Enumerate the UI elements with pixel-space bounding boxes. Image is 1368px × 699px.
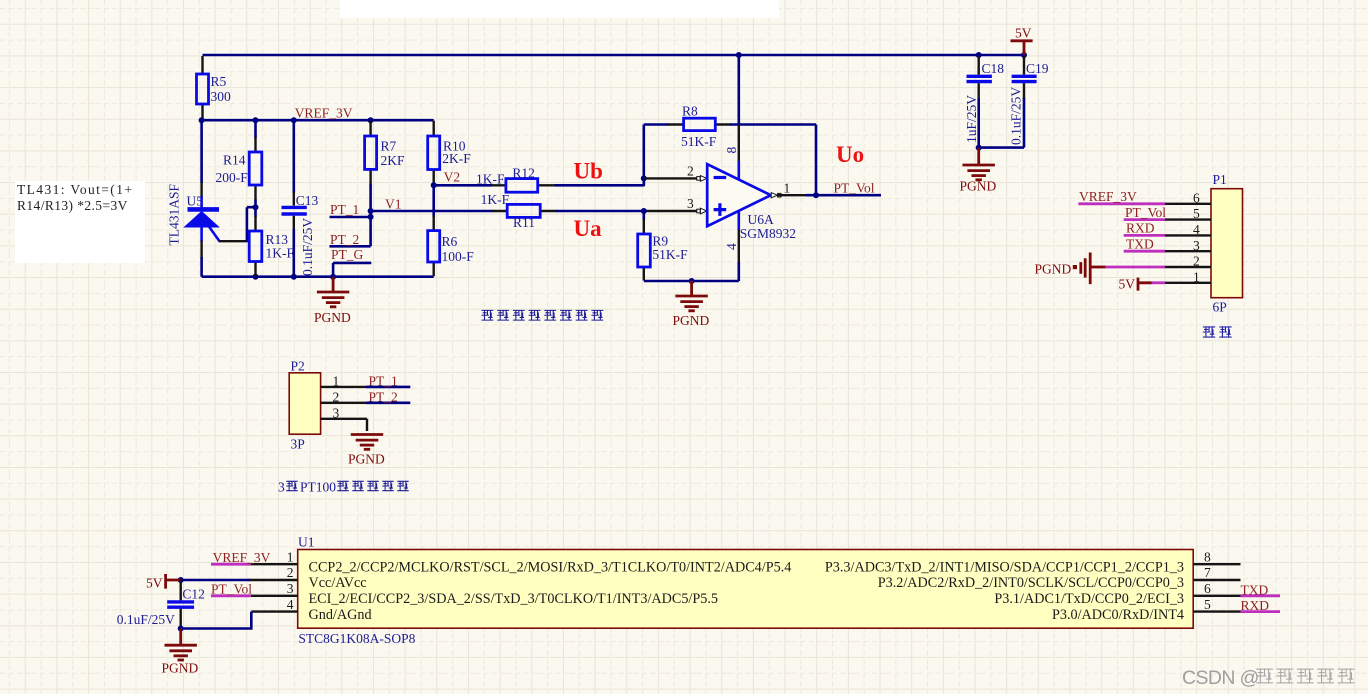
wire top 5V rail (203, 54, 1025, 57)
svg-text:4: 4 (724, 243, 739, 250)
svg-text:PT_Vol: PT_Vol (1125, 205, 1166, 220)
svg-text:51K-F: 51K-F (652, 247, 688, 262)
svg-text:VREF_3V: VREF_3V (1079, 189, 1137, 204)
svg-text:VREF_3V: VREF_3V (213, 550, 271, 565)
svg-text:TL431ASF: TL431ASF (167, 184, 182, 246)
junction VREF at R7 (368, 117, 374, 123)
pin 2 wire (644, 177, 700, 179)
power 5V top right (1011, 26, 1033, 55)
svg-text:PT_Vol: PT_Vol (211, 581, 252, 596)
svg-text:200-F: 200-F (216, 170, 249, 185)
svg-text:PGND: PGND (673, 313, 710, 328)
ground PGND under op-amp (673, 281, 710, 328)
svg-text:TXD: TXD (1241, 582, 1269, 597)
wire output PT_Vol (806, 194, 881, 197)
svg-text:8: 8 (724, 147, 739, 154)
wire VREF_3V to U1 pin1 (211, 563, 251, 566)
wire C18-C19 bottom (979, 146, 1024, 149)
svg-text:P3.3/ADC3/TxD_2/INT1/MISO/SDA/: P3.3/ADC3/TxD_2/INT1/MISO/SDA/CCP1/CCP1_… (825, 559, 1184, 575)
pin 3 of P1 (1165, 250, 1211, 252)
junction on top rail at C19 / 5V (1021, 52, 1027, 58)
svg-text:C19: C19 (1026, 61, 1049, 76)
svg-text:Vcc/AVcc: Vcc/AVcc (309, 575, 367, 591)
wire bottom rail (202, 275, 434, 278)
connector P1 (1211, 172, 1243, 315)
wire Ua net: R11 to op-amp (556, 210, 644, 213)
svg-text:P2: P2 (291, 359, 305, 374)
pin 4 (737, 211, 740, 231)
svg-text:0.1uF/25V: 0.1uF/25V (300, 218, 315, 276)
svg-text:R5: R5 (211, 74, 227, 89)
junction on top rail at op-amp supply column (736, 52, 742, 58)
ground PGND under C12 (162, 629, 199, 676)
svg-text:2: 2 (287, 565, 294, 580)
svg-text:CSDN @: CSDN @ (1182, 667, 1259, 689)
junction V2 (431, 182, 437, 188)
annotation white box (15, 181, 145, 263)
pin 4 of U1 (251, 610, 297, 612)
ground PGND sideways at P1 pin 2 (1035, 253, 1106, 285)
svg-text:3: 3 (333, 405, 340, 420)
pin 3 wire (644, 210, 700, 212)
svg-text:3: 3 (278, 480, 285, 495)
svg-text:PGND: PGND (348, 452, 385, 467)
pin 3 of U1 (251, 595, 298, 597)
svg-text:PT_2: PT_2 (369, 389, 398, 404)
wire 5V to U1 pin2 (181, 579, 250, 582)
svg-text:RXD: RXD (1126, 221, 1155, 236)
pin 4 of P1 (1165, 234, 1211, 236)
wire Ub net: V2 to R12 (434, 184, 492, 187)
svg-text:300: 300 (211, 89, 232, 104)
pin 6 of U1 (1193, 595, 1240, 597)
pin 5 of P1 (1165, 218, 1211, 220)
svg-text:1K-F: 1K-F (476, 172, 505, 187)
svg-text:C12: C12 (182, 587, 205, 602)
svg-text:V1: V1 (385, 197, 402, 212)
junction C12 bottom (178, 626, 184, 632)
text stage caption (482, 310, 604, 320)
junction bottom rail at R13 (253, 274, 259, 280)
svg-text:R14: R14 (223, 153, 246, 168)
svg-text:R11: R11 (513, 215, 535, 230)
wire VREF_3V to pin 6 (1078, 202, 1165, 205)
svg-text:3: 3 (687, 196, 694, 211)
junction VREF at R5/U5 (199, 117, 205, 123)
svg-text:U6A: U6A (748, 212, 774, 227)
resistor R11 (481, 192, 557, 230)
svg-text:C18: C18 (982, 61, 1005, 76)
resistor R6 (428, 215, 475, 276)
svg-text:8: 8 (1204, 549, 1211, 564)
resistor R12 (476, 165, 556, 192)
resistor R13 (249, 207, 294, 276)
svg-text:STC8G1K08A-SOP8: STC8G1K08A-SOP8 (298, 631, 415, 646)
capacitor C13 (282, 120, 319, 277)
svg-text:51K-F: 51K-F (681, 134, 717, 149)
svg-text:5: 5 (1204, 597, 1211, 612)
pin 2 of P2 (321, 402, 367, 404)
svg-text:2: 2 (687, 164, 694, 179)
text pin header caption (1203, 327, 1232, 337)
svg-text:5V: 5V (146, 576, 163, 591)
pin 3 of P2 (321, 419, 367, 431)
junction bottom rail at PT_G (330, 274, 336, 280)
pin 2 of P1 (1165, 266, 1211, 268)
junction inverting input (641, 175, 647, 181)
svg-text:V2: V2 (444, 169, 461, 184)
pin 1 output (771, 193, 777, 198)
wire R8 feedback right to output (730, 125, 816, 196)
capacitor C12 (117, 580, 205, 629)
svg-text:2KF: 2KF (381, 153, 405, 168)
svg-text:0.1uF/25V: 0.1uF/25V (1009, 87, 1024, 145)
svg-text:3: 3 (287, 581, 294, 596)
wire V2 to R6 (432, 185, 435, 217)
power 5V at P1 pin 1 (1119, 276, 1153, 291)
wire PT_1 stub (330, 216, 371, 219)
svg-text:2: 2 (1193, 254, 1200, 269)
svg-text:4: 4 (287, 597, 294, 612)
text watermark (1182, 667, 1354, 689)
wire PT_1 to PT_2 vertical (369, 211, 372, 246)
junction bottom rail at C13 (291, 274, 297, 280)
svg-text:1: 1 (1193, 269, 1200, 284)
svg-text:R14/R13) *2.5=3V: R14/R13) *2.5=3V (17, 198, 128, 213)
svg-text:Gnd/AGnd: Gnd/AGnd (309, 607, 372, 623)
svg-text:1: 1 (287, 549, 294, 564)
svg-text:PT_1: PT_1 (369, 373, 398, 388)
junction op-amp ground (689, 278, 695, 284)
pin 1 of P2 (321, 386, 367, 388)
svg-text:PT_Vol: PT_Vol (834, 180, 875, 195)
svg-text:3: 3 (1193, 238, 1200, 253)
pin 2 of U1 (249, 579, 298, 581)
svg-text:C13: C13 (296, 193, 319, 208)
svg-text:RXD: RXD (1241, 598, 1270, 613)
junction R14/R13/U5 ref (253, 204, 259, 210)
junction non-inverting input at R9 (641, 208, 647, 214)
svg-text:6: 6 (1204, 581, 1211, 596)
junction PT_1 (368, 214, 374, 220)
IC U1 STC8G1K08A-SOP8 (298, 535, 1193, 646)
transistor U5 TL431ASF (167, 120, 255, 277)
ground PGND under P2 (348, 435, 385, 467)
wire RXD to pin 4 (1124, 234, 1165, 237)
svg-text:R7: R7 (381, 139, 397, 154)
pin 1 of U1 (251, 563, 298, 565)
resistor R7 (365, 121, 405, 211)
svg-text:5: 5 (1193, 206, 1200, 221)
pin 8 of U1 (1193, 563, 1240, 565)
junction output/feedback (813, 192, 819, 198)
resistor R14 (216, 120, 262, 207)
svg-text:PGND: PGND (1035, 262, 1072, 277)
wire op-amp ground rail (644, 280, 739, 283)
svg-text:ECI_2/ECI/CCP2_3/SDA_2/SS/TxD_: ECI_2/ECI/CCP2_3/SDA_2/SS/TxD_3/T0CLKO/T… (309, 591, 719, 607)
resistor R5 (197, 56, 232, 120)
wire PGND to pin 2 (1106, 266, 1165, 269)
wire Ua net: V1 to R11 (371, 210, 493, 213)
resistor R9 (638, 211, 688, 281)
junction V1 at R7 bottom (368, 208, 374, 214)
wire VREF rail (202, 119, 434, 122)
wire PT_Vol to pin 5 (1124, 218, 1165, 221)
svg-text:SGM8932: SGM8932 (740, 226, 796, 241)
svg-text:P1: P1 (1213, 172, 1227, 187)
svg-text:R8: R8 (682, 104, 698, 119)
svg-text:4: 4 (1193, 222, 1200, 237)
wire U1 pin4 to C12 ground (181, 612, 252, 629)
junction 5V/C12 (178, 577, 184, 583)
wire op-amp supply from top rail (737, 55, 740, 126)
op-amp U6A SGM8932 (707, 164, 796, 241)
svg-text:1K-F: 1K-F (481, 192, 510, 207)
white strip top (340, 0, 779, 18)
svg-text:100-F: 100-F (442, 249, 475, 264)
svg-text:6P: 6P (1213, 300, 1227, 315)
svg-text:P3.0/ADC0/RxD/INT4: P3.0/ADC0/RxD/INT4 (1052, 607, 1184, 623)
svg-text:P3.2/ADC2/RxD_2/INT0/SCLK/SCL/: P3.2/ADC2/RxD_2/INT0/SCLK/SCL/CCP0/CCP0_… (878, 575, 1184, 591)
svg-text:PGND: PGND (960, 179, 997, 194)
svg-text:P3.1/ADC1/TxD/CCP0_2/ECI_3: P3.1/ADC1/TxD/CCP0_2/ECI_3 (994, 591, 1184, 607)
svg-text:U5: U5 (187, 193, 204, 208)
svg-text:PGND: PGND (162, 661, 199, 676)
wire TXD from U1 pin6 (1241, 594, 1281, 597)
svg-text:TXD: TXD (1126, 236, 1154, 251)
svg-text:PT100: PT100 (300, 480, 336, 495)
pin 6 of P1 (1165, 203, 1211, 205)
ground PGND under PT_G (314, 277, 351, 325)
svg-text:Ub: Ub (574, 159, 603, 184)
pin 1 of P1 (1165, 282, 1211, 284)
svg-text:CCP2_2/CCP2/MCLKO/RST/SCL_2/MO: CCP2_2/CCP2/MCLKO/RST/SCL_2/MOSI/RxD_3/T… (309, 559, 792, 575)
junction VREF at C13 (291, 117, 297, 123)
svg-text:R6: R6 (442, 234, 458, 249)
svg-text:PT_1: PT_1 (330, 202, 359, 217)
svg-text:Ua: Ua (574, 216, 603, 241)
wire RXD from U1 pin5 (1241, 610, 1281, 613)
junction VREF at R14 (253, 117, 259, 123)
wire R8 feedback left vertical (644, 125, 669, 186)
wire Ub net: R12 to op-amp (555, 178, 644, 186)
wire PT_Vol to U1 pin3 (211, 594, 251, 597)
svg-text:7: 7 (1204, 565, 1211, 580)
junction C18 bottom (976, 145, 982, 151)
connector P2 (289, 359, 320, 452)
svg-text:6: 6 (1193, 190, 1200, 205)
svg-text:PGND: PGND (314, 310, 351, 325)
svg-text:R12: R12 (512, 165, 535, 180)
svg-text:TL431: Vout=(1+: TL431: Vout=(1+ (17, 182, 133, 197)
wire TXD to pin 3 (1124, 250, 1165, 253)
svg-text:U1: U1 (298, 535, 315, 550)
svg-text:VREF_3V: VREF_3V (295, 106, 353, 121)
wire PT_G stub (333, 263, 371, 277)
capacitor C19 (1009, 56, 1049, 148)
svg-text:0.1uF/25V: 0.1uF/25V (117, 612, 175, 627)
resistor R8 (668, 104, 731, 149)
svg-text:1uF/25V: 1uF/25V (964, 95, 979, 143)
svg-text:2K-F: 2K-F (442, 151, 471, 166)
svg-text:5V: 5V (1119, 276, 1136, 291)
svg-text:2: 2 (333, 389, 340, 404)
wire PT_2 stub (330, 245, 371, 248)
wire PT_1 from P2 (366, 386, 410, 389)
junction on top rail at C18 (976, 52, 982, 58)
pin 7 of U1 (1193, 579, 1240, 581)
pin 8 supply (738, 125, 740, 163)
capacitor C18 (964, 56, 1004, 148)
svg-text:1K-F: 1K-F (266, 245, 295, 260)
ground PGND under C18 (960, 148, 997, 194)
svg-text:PT_2: PT_2 (330, 232, 359, 247)
wire PT_2 from P2 (366, 401, 410, 404)
svg-text:PT_G: PT_G (331, 247, 364, 262)
resistor R10 (428, 121, 472, 185)
wire 5V to pin 1 (1152, 281, 1166, 284)
svg-text:5V: 5V (1015, 26, 1032, 41)
svg-text:1: 1 (333, 373, 340, 388)
svg-text:1: 1 (784, 180, 791, 195)
text PT100 interface caption (278, 480, 409, 495)
pin 5 of U1 (1193, 610, 1240, 612)
svg-text:Uo: Uo (836, 142, 864, 167)
svg-text:3P: 3P (291, 437, 305, 452)
power 5V at U1 (146, 574, 181, 591)
